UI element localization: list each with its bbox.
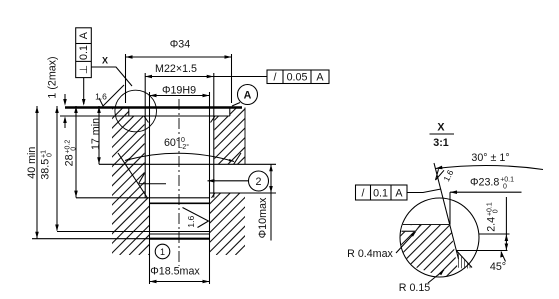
arrows 38.5 xyxy=(55,106,59,113)
bore wall right xyxy=(209,92,211,284)
ARROWS xyxy=(35,55,508,283)
arrows detail 2.4 xyxy=(505,234,509,241)
detail groove bottom xyxy=(456,250,507,252)
svg-text:M22×1.5: M22×1.5 xyxy=(155,63,197,75)
left dim line 28 xyxy=(75,106,77,198)
detail frame flatness 0.1 A xyxy=(356,185,408,200)
cone face right lower xyxy=(212,193,215,198)
datum A balloon xyxy=(238,85,258,105)
detail R0.4 relief floor xyxy=(402,230,416,232)
detail ledge xyxy=(403,224,450,226)
svg-text:A: A xyxy=(78,31,90,39)
svg-text:0.1: 0.1 xyxy=(78,45,90,60)
title underline xyxy=(430,133,455,135)
svg-text:3:1: 3:1 xyxy=(433,137,449,149)
svg-text:17 min: 17 min xyxy=(90,118,102,150)
balloon 2 circle xyxy=(249,171,269,191)
bore wall left xyxy=(149,92,151,284)
cone face right upper xyxy=(234,153,241,164)
detail 30deg arc leader xyxy=(436,165,544,169)
detail circle xyxy=(400,198,479,277)
arrows M22 xyxy=(145,75,152,79)
dim 1 (2max) arrow stems xyxy=(64,94,66,104)
40 extension line xyxy=(32,238,150,240)
arrow detail R0.15 xyxy=(439,270,444,275)
svg-text:1.6: 1.6 xyxy=(95,92,107,102)
thread crest line right xyxy=(213,73,215,198)
arrows 17min xyxy=(97,106,101,113)
arrow perpendicularity leader xyxy=(82,99,86,106)
left dim line 38.5 xyxy=(56,106,58,231)
roughness 1.6 top symbol xyxy=(99,85,124,106)
spotface wall left xyxy=(128,109,130,117)
svg-text:0.1: 0.1 xyxy=(373,188,388,200)
dim line M22 with leader to frame xyxy=(145,76,267,78)
detail phi23.8 dim line xyxy=(450,191,522,193)
arrow detail phi23.8 xyxy=(450,190,457,194)
thread entry chamfer left xyxy=(144,116,149,123)
roughness check on cone face xyxy=(139,173,145,183)
svg-text:A: A xyxy=(316,72,324,84)
detail bore wall xyxy=(449,192,451,224)
arrow detail 45deg leader xyxy=(500,252,503,258)
svg-text:X: X xyxy=(102,56,108,66)
svg-text:0.05: 0.05 xyxy=(287,72,308,84)
part right edge xyxy=(244,108,246,165)
detail roughness on slope xyxy=(436,169,445,180)
balloon 1 circle xyxy=(155,244,170,259)
svg-text:A: A xyxy=(244,90,252,102)
arrows 60deg arc xyxy=(125,158,130,161)
dim line phi34 xyxy=(126,56,232,58)
centerline tick in bore xyxy=(139,183,166,185)
groove bottom and 28 extension xyxy=(76,197,210,199)
svg-text:38.5 +10: 38.5 +10 xyxy=(39,150,53,180)
svg-text:1 (2max): 1 (2max) xyxy=(47,56,59,98)
svg-text:1: 1 xyxy=(160,247,165,257)
60 degree dimension arc xyxy=(125,153,234,161)
left dim line 40min xyxy=(36,106,38,239)
svg-text:A: A xyxy=(395,188,403,200)
svg-text:1.6: 1.6 xyxy=(186,216,196,228)
dim line phi18.5max xyxy=(150,281,210,283)
svg-text:Φ34: Φ34 xyxy=(170,39,190,51)
arrows phi10max xyxy=(269,165,273,172)
svg-text:Φ10max: Φ10max xyxy=(257,197,269,238)
top surface edge xyxy=(65,106,242,109)
dense wedge hatch xyxy=(459,253,471,269)
svg-text:30° ± 1°: 30° ± 1° xyxy=(471,152,509,164)
thread entry chamfer right xyxy=(211,116,216,123)
centerline vertical xyxy=(178,99,180,266)
roughness symbol in bore (rotated) xyxy=(183,208,209,228)
left dim line 17min xyxy=(98,106,100,164)
thread crest line left xyxy=(144,73,146,198)
svg-text:Φ18.5max: Φ18.5max xyxy=(150,266,200,278)
detail R0.4max leader xyxy=(396,232,416,253)
svg-text:45°: 45° xyxy=(490,261,506,273)
detail 2.4 dim line upper ext xyxy=(505,197,507,251)
svg-text:2: 2 xyxy=(256,176,262,188)
frame parallelism 0.05 A xyxy=(267,70,329,84)
ext line phi34 right xyxy=(231,54,233,103)
svg-text:/: / xyxy=(274,72,277,84)
spotface floor xyxy=(60,115,230,117)
balloon 2 leader xyxy=(208,180,249,182)
svg-text:R 0.4max: R 0.4max xyxy=(347,248,393,260)
frame perpendicularity 0.1 A vertical xyxy=(76,28,92,78)
spotface wall right xyxy=(229,109,231,117)
perpendicularity frame leader xyxy=(83,78,85,104)
detail ext line1 xyxy=(479,233,510,235)
svg-text:/: / xyxy=(362,188,365,200)
bottom thick edge xyxy=(150,238,211,240)
side channel bottom xyxy=(210,192,277,194)
arrows 40min xyxy=(35,106,39,113)
detail slope 30deg face xyxy=(434,163,459,259)
detail 45deg leader xyxy=(501,252,506,262)
arrows phi34 xyxy=(126,55,133,59)
detail R0.15 leader xyxy=(428,270,444,283)
dim line phi19H9 xyxy=(150,95,210,97)
detail frame leader xyxy=(407,189,441,193)
svg-text:40 min: 40 min xyxy=(26,147,38,179)
arrows 28 xyxy=(74,106,78,113)
svg-text:R 0.15: R 0.15 xyxy=(399,282,431,294)
detail 45 chamfer xyxy=(456,251,472,268)
svg-text:X: X xyxy=(437,122,445,134)
arrows phi18.5max xyxy=(150,280,157,284)
detail boundary circle X xyxy=(115,90,157,132)
bore floor line 2 xyxy=(150,233,210,235)
detail R0.4 relief slant xyxy=(416,225,421,232)
arrow balloon2 leader xyxy=(208,179,215,183)
cone face left xyxy=(118,153,148,198)
17min extension and side channel top xyxy=(99,163,276,165)
ext line phi34 left xyxy=(125,54,127,103)
leader of X label xyxy=(91,67,132,86)
arrow detail R0.4max xyxy=(411,232,416,237)
arrows phi19H9 xyxy=(150,94,157,98)
arrow detail 30deg arc xyxy=(436,166,443,170)
bore floor line 1 and 38.5 extension xyxy=(57,231,210,233)
arrows 1 (2max) xyxy=(63,99,67,106)
dim line phi10max xyxy=(270,165,272,241)
svg-text:Φ19H9: Φ19H9 xyxy=(162,84,196,96)
datum A leader xyxy=(232,103,240,107)
svg-text:⊥: ⊥ xyxy=(78,65,90,74)
